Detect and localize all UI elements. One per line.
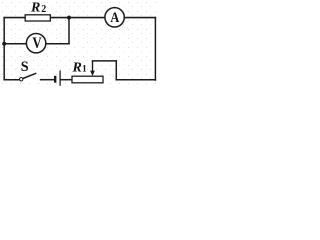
wire battery to rheostat	[61, 79, 72, 81]
wire top-left segment	[4, 17, 25, 19]
wire R2 to ammeter	[50, 17, 105, 19]
resistor R2	[25, 15, 50, 21]
wire voltmeter branch left	[4, 43, 26, 45]
wire ammeter to top-right corner	[124, 17, 155, 19]
node junction dot top	[67, 16, 71, 20]
svg-text:A: A	[110, 10, 119, 26]
battery cell	[55, 71, 60, 86]
svg-text:V: V	[32, 35, 42, 52]
wire slider top horizontal	[93, 60, 117, 62]
voltmeter V	[26, 34, 45, 53]
wire left vertical	[3, 18, 5, 80]
node junction dot left	[2, 42, 6, 46]
wire bottom-right horizontal	[116, 79, 155, 81]
svg-text:R: R	[72, 61, 82, 76]
wire right vertical	[154, 18, 156, 80]
svg-text:2: 2	[41, 4, 46, 15]
wire switch to battery	[41, 79, 55, 81]
rheostat R1	[72, 76, 103, 83]
svg-text:R: R	[30, 0, 40, 15]
wire junction vertical to voltmeter branch	[68, 18, 70, 44]
wire step vertical	[115, 61, 117, 80]
svg-text:1: 1	[82, 65, 87, 75]
rheostat slider arrow	[90, 61, 95, 76]
ammeter A	[105, 8, 124, 27]
svg-text:S: S	[21, 59, 29, 75]
switch S	[20, 73, 37, 81]
wire bottom-left to switch	[4, 79, 19, 81]
wire voltmeter branch right	[46, 43, 69, 45]
